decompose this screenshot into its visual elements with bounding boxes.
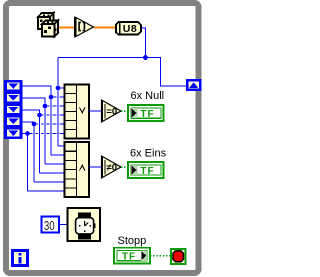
svg-text:6x Eins: 6x Eins — [130, 147, 167, 159]
node current OR row1 — [58, 87, 65, 89]
wire OR out to equal-zero — [89, 110, 102, 112]
wire notequal0 to TF (green dotted) — [121, 166, 128, 168]
svg-text:TF: TF — [122, 252, 136, 263]
wire triangle to U8 (orange) — [94, 27, 116, 29]
TF indicator 6x Null — [128, 105, 164, 121]
wire dice to triangle (orange) — [56, 27, 75, 29]
wire OR row4 — [40, 114, 65, 116]
svg-text:=0: =0 — [106, 107, 117, 118]
wire Stopp to stop terminal (green dotted) — [150, 255, 171, 257]
wire shift reg 2 — [23, 98, 46, 164]
svg-text:Stopp: Stopp — [118, 235, 147, 247]
TF indicator 6x Eins — [128, 162, 164, 178]
svg-text:≠0: ≠0 — [107, 163, 118, 174]
wire OR row3 — [45, 105, 65, 107]
wire OR row5 — [34, 123, 65, 125]
loop stop condition terminal — [171, 249, 186, 264]
wait until next ms multiple node — [68, 208, 101, 241]
svg-text:TF: TF — [140, 166, 154, 177]
svg-text:TF: TF — [140, 109, 154, 120]
numeric constant 30 — [42, 217, 60, 233]
dice icon (random number) — [38, 13, 58, 37]
wire shift reg 1 — [23, 86, 52, 155]
loop iteration terminal i — [13, 251, 28, 266]
compound AND node — [65, 142, 90, 197]
wire 30 to wait node — [59, 224, 68, 226]
compound OR node — [65, 85, 90, 139]
svg-text:U8: U8 — [123, 23, 137, 35]
while loop border — [6, 3, 199, 273]
wire shift reg 3 — [23, 110, 40, 173]
wire current AND row1 — [58, 145, 65, 147]
conversion triangle — [75, 17, 94, 37]
junction dot — [143, 55, 148, 60]
left shift register stack — [4, 80, 23, 139]
svg-text:6x Null: 6x Null — [131, 90, 165, 102]
wire AND out to notequal-zero — [89, 166, 102, 168]
wire OR row6 — [28, 133, 65, 135]
equal to 0 node — [102, 100, 122, 122]
wire junction left run — [58, 57, 146, 59]
svg-text:30: 30 — [44, 218, 55, 233]
wire junction to right shift register — [146, 58, 187, 87]
wire OR row2 — [51, 96, 65, 98]
wire current value vertical — [57, 58, 59, 147]
wire U8 to junction (blue) — [141, 28, 146, 58]
wire shift reg 5 — [23, 133, 28, 135]
wire equal0 to TF (green dotted) — [121, 110, 128, 112]
not equal to 0 node — [102, 156, 122, 178]
right shift register terminal — [186, 79, 202, 91]
wire shift reg 4 — [23, 122, 35, 182]
U8 conversion box — [116, 22, 141, 35]
TF control Stopp — [114, 248, 150, 264]
